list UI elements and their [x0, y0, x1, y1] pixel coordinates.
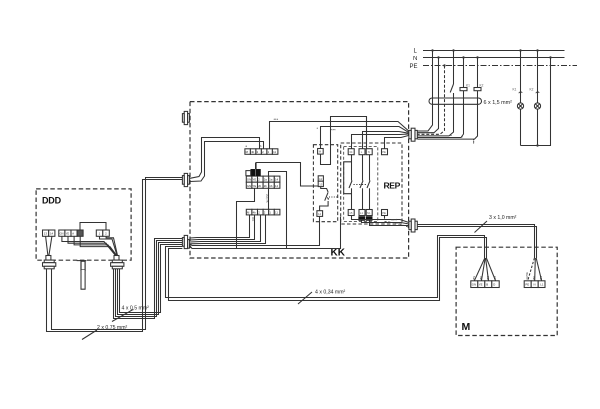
- annotation star2: [317, 126, 337, 133]
- contact N lower lead: [369, 188, 371, 209]
- coil K1 body: [460, 88, 467, 91]
- node N-K2: [476, 56, 478, 58]
- wire X2 plug to REP 34 column: [256, 163, 318, 187]
- wire PE to gland (dashed): [418, 66, 445, 135]
- connector plug outline left: [246, 171, 251, 176]
- M left terminal fan: [474, 258, 495, 281]
- wire 15 to gland2: [352, 216, 409, 223]
- DDD sensor probe tube: [81, 270, 85, 289]
- gland KK-right2: [409, 219, 417, 232]
- contact 34 blade: [349, 181, 352, 189]
- svg-text:K2: K2: [480, 84, 484, 88]
- REP terminal 15 bottom: [348, 210, 354, 216]
- DDD terminal g3: [71, 230, 77, 236]
- lamp H2 lead: [537, 51, 539, 104]
- label 6x1.5mm2: [484, 100, 513, 106]
- node N-lampreturn: [549, 56, 551, 58]
- contact linkage marks: [354, 184, 368, 186]
- REP 34 label: [349, 150, 353, 154]
- DDD terminal 13: [43, 230, 49, 236]
- sensor switch linkage dots: [329, 196, 338, 198]
- svg-text:N1: N1: [367, 211, 371, 215]
- X1 pin marks: [246, 144, 263, 148]
- wire PE pigtail to gland: [385, 135, 409, 148]
- svg-text:N: N: [413, 56, 417, 62]
- lamp H2 label: [530, 88, 534, 92]
- node L1-drop: [431, 49, 433, 51]
- svg-text:REP: REP: [384, 181, 401, 191]
- node N1-drop: [437, 56, 439, 58]
- wire X2 col2 down-left: [237, 188, 255, 248]
- svg-text:YE: YE: [253, 178, 257, 182]
- fan continuation dots: [450, 135, 474, 144]
- wire X1 terminal 5 to top run: [270, 122, 409, 149]
- coil K2 lead from N: [477, 58, 479, 88]
- svg-text:BU: BU: [532, 276, 536, 280]
- DDD mid labels: [60, 232, 75, 236]
- M right terminal fan: [528, 258, 542, 281]
- contact 34 upper lead: [351, 155, 353, 181]
- svg-text:BN: BN: [539, 276, 543, 280]
- wire gland3 stair 3: [190, 215, 261, 242]
- svg-text:2x0,75: 2x0,75: [265, 194, 269, 203]
- svg-text:4b: 4b: [251, 150, 255, 154]
- wire N1 to gland2: [370, 221, 409, 226]
- wire L to gland: [418, 51, 433, 132]
- svg-text:K2: K2: [530, 88, 534, 92]
- DDD terminal 1: [96, 230, 103, 236]
- REP N1 label: [367, 211, 371, 215]
- svg-text:YE: YE: [66, 232, 70, 236]
- cable 4x0.34 run: [166, 236, 487, 301]
- cable 2x0.75 run: [47, 178, 183, 332]
- svg-text:*: *: [317, 126, 319, 131]
- connector plug (black) on X2: [251, 169, 261, 175]
- REP module box: [341, 143, 402, 224]
- svg-text:GN: GN: [247, 184, 251, 188]
- svg-text:BN: BN: [472, 276, 476, 280]
- M left pin notes rotated: [472, 275, 497, 279]
- svg-text:2b: 2b: [264, 184, 268, 188]
- contact N blade: [367, 181, 370, 189]
- wire PE2 to gland2 dashed: [385, 222, 409, 228]
- cable 3x1.0 run: [418, 225, 537, 259]
- REP PE label: [382, 150, 386, 154]
- svg-text:6 x 1,5 mm²: 6 x 1,5 mm²: [484, 100, 513, 106]
- svg-text:D: D: [493, 283, 495, 287]
- wire 34 detour: [344, 162, 352, 194]
- terminal 13 label: [319, 182, 323, 186]
- svg-text:1a: 1a: [269, 178, 273, 182]
- svg-text:M: M: [462, 321, 471, 333]
- DDD right gland: [111, 256, 124, 269]
- node L-lamp1: [519, 49, 521, 51]
- wire gland3 stair 2: [190, 215, 255, 240]
- gland KK-left3: [182, 235, 189, 248]
- wire N to gland: [418, 58, 439, 133]
- svg-text:K1: K1: [466, 84, 470, 88]
- coil K2 body: [474, 88, 481, 91]
- DDD enclosure box: [36, 189, 131, 260]
- svg-text:YE: YE: [253, 184, 257, 188]
- label N: [413, 56, 417, 62]
- X2 terminal numbers: [247, 178, 279, 188]
- contact L lower lead: [362, 188, 364, 209]
- node lamp return: [536, 144, 538, 146]
- M right terminal labels: [525, 283, 543, 287]
- label M: [462, 321, 471, 333]
- slash 2x0.75: [82, 330, 97, 340]
- svg-text:B: B: [486, 283, 488, 287]
- gland KK-left spare: [182, 111, 189, 124]
- svg-text:14: 14: [50, 232, 54, 236]
- terminal A2 of sub-box: [318, 176, 323, 181]
- lamp H1 lead: [520, 51, 522, 104]
- lamp H1: [517, 103, 523, 109]
- shield note text: [391, 218, 397, 222]
- DDD right pair wires to gland: [100, 236, 118, 255]
- contact L upper lead: [362, 155, 364, 181]
- svg-text:GY: GY: [493, 275, 497, 279]
- svg-text:BK: BK: [486, 276, 490, 280]
- coil K1 lead to gland: [418, 91, 464, 138]
- DDD wires to left gland: [46, 236, 52, 255]
- gland KK-left2: [182, 173, 189, 186]
- cable 4x0.5 run: [114, 239, 183, 319]
- wire loop M to N over top: [321, 117, 367, 165]
- wire L1 to gland2: [362, 221, 409, 225]
- REP inner relay box: [344, 147, 378, 222]
- X3 terminal numbers: [247, 211, 278, 215]
- X1 terminal numbers: [246, 150, 277, 154]
- KK enclosure box: [190, 102, 409, 258]
- svg-text:14: 14: [318, 212, 322, 216]
- svg-text:L: L: [414, 48, 418, 54]
- M right terminals: [524, 281, 545, 288]
- terminal row X1: [245, 149, 278, 155]
- svg-text:13: 13: [44, 232, 48, 236]
- svg-text:L1: L1: [360, 211, 364, 215]
- DDD terminal g4 (dark): [77, 230, 83, 236]
- switch S1 blade: [450, 84, 453, 93]
- label DDD: [42, 196, 62, 206]
- slash 4x0.34: [298, 292, 312, 304]
- contact 34 lower lead: [351, 188, 353, 209]
- svg-text:2b: 2b: [258, 184, 262, 188]
- svg-text:4 x 0,34 mm²: 4 x 0,34 mm²: [315, 290, 346, 296]
- wire gland3 stair 1: [190, 215, 250, 238]
- DDD mid wires to right gland: [62, 236, 117, 255]
- node L-switch: [452, 49, 454, 51]
- wire switch to 14: [320, 201, 329, 211]
- svg-text:4b: 4b: [253, 211, 257, 215]
- slash 3x1.0: [475, 221, 488, 233]
- switch S1 upper lead: [453, 51, 455, 85]
- wire 14 down to gland fan: [190, 216, 320, 245]
- DDD jumper wire over: [80, 223, 106, 231]
- svg-text:PE: PE: [410, 64, 418, 70]
- lamp H1 label: [513, 88, 517, 92]
- label 4x0.34mm2: [315, 290, 346, 296]
- lamp H2 lower lead: [537, 109, 539, 145]
- label REP: [384, 181, 401, 191]
- bus N: [423, 57, 565, 59]
- svg-text:L1: L1: [540, 283, 544, 287]
- svg-text:GN: GN: [472, 283, 476, 287]
- label 2x0.75mm2: [97, 325, 128, 331]
- node N-K1: [462, 56, 464, 58]
- REP L1 label: [360, 211, 364, 215]
- lamp H2 hook: [536, 92, 540, 93]
- contact N upper lead: [369, 155, 371, 181]
- svg-text:2a: 2a: [264, 178, 268, 182]
- terminal 14 label: [318, 212, 322, 216]
- wire L pigtail to gland: [363, 132, 409, 149]
- wire gland3 stair 4: [190, 215, 266, 244]
- svg-text:1b: 1b: [269, 184, 273, 188]
- wire 34 pigtail to gland: [352, 134, 409, 149]
- wire N loop feed top: [366, 117, 368, 149]
- terminal row X3: [246, 209, 280, 215]
- svg-text:N: N: [368, 150, 370, 154]
- coil K2 lead to gland: [418, 91, 478, 139]
- svg-text:***: ***: [274, 117, 279, 122]
- wire gland2 to X1 terminal 4: [190, 142, 264, 182]
- DDD t1/t2 labels: [99, 232, 108, 236]
- terminal block X2: [246, 176, 280, 188]
- switch S1 lower lead to gland: [418, 93, 454, 136]
- M right pin notes rotated: [525, 272, 543, 280]
- DDD terminal 2: [103, 230, 110, 236]
- wire 15 column drop: [287, 217, 341, 249]
- DDD terminal g2: [65, 230, 71, 236]
- REP terminal L1 bottom: [359, 210, 365, 216]
- annotation stars: [274, 117, 279, 122]
- svg-text:a: a: [246, 145, 248, 148]
- REP output plug black: [359, 217, 373, 221]
- gland KK-right1: [409, 128, 417, 141]
- label L: [414, 48, 418, 54]
- svg-text:***: ***: [331, 128, 336, 133]
- DDD sensor probe cap: [77, 260, 87, 262]
- svg-text:PE: PE: [525, 283, 529, 287]
- rotated cable note: [265, 194, 269, 203]
- DDD terminal 14: [49, 230, 55, 236]
- svg-text:15: 15: [349, 211, 353, 215]
- svg-text:PE: PE: [382, 211, 386, 215]
- DDD sensor probe body: [81, 261, 85, 270]
- lamp H1 lower lead: [520, 109, 522, 145]
- svg-text:YE: YE: [479, 283, 483, 287]
- REP terminal N1 bottom: [366, 210, 372, 216]
- svg-text:34: 34: [349, 150, 353, 154]
- lamp return wire: [521, 58, 551, 146]
- svg-text:2 x 0,75 mm²: 2 x 0,75 mm²: [97, 325, 128, 331]
- coil K1 label: [466, 84, 470, 88]
- REP 15 label: [349, 211, 353, 215]
- label 3x1.0mm2: [489, 215, 517, 221]
- svg-text:N: N: [534, 283, 536, 287]
- svg-text:14: 14: [275, 184, 279, 188]
- lamp H2: [534, 103, 540, 109]
- DDD t13/t14 labels: [44, 232, 54, 236]
- svg-text:A2: A2: [319, 177, 323, 181]
- cable collar 6x1.5: [429, 98, 482, 104]
- REP terminal PE top: [382, 149, 388, 155]
- bus PE: [423, 65, 577, 67]
- svg-text:11: 11: [273, 150, 276, 154]
- sensor switch blade: [325, 192, 328, 200]
- terminal M of sub-box: [318, 149, 324, 155]
- M motor box: [456, 247, 557, 335]
- X3 rotated note: [251, 217, 255, 222]
- REP terminal 34 top: [348, 149, 354, 155]
- terminal A2 label: [319, 177, 323, 181]
- svg-text:11: 11: [275, 211, 278, 215]
- wire gland2 to X1 terminal 3: [190, 138, 260, 179]
- REP terminal PE bottom: [382, 210, 388, 216]
- label KK: [331, 248, 346, 259]
- label 4x0.5mm2: [122, 306, 150, 312]
- DDD terminal g1: [59, 230, 65, 236]
- sub-box sensor switch unit: [313, 145, 337, 222]
- svg-text:13: 13: [319, 182, 323, 186]
- svg-text:K1: K1: [513, 88, 517, 92]
- svg-text:GN: GN: [60, 232, 64, 236]
- svg-text:A: A: [72, 232, 74, 236]
- DDD left gland: [43, 256, 56, 269]
- REP L label: [361, 150, 363, 154]
- slash 4x0.5: [112, 310, 133, 322]
- M left terminal labels: [472, 283, 495, 287]
- svg-text:14: 14: [275, 178, 279, 182]
- svg-text:GN: GN: [247, 178, 251, 182]
- REP PE2 label: [382, 211, 386, 215]
- sensor switch arrow: [327, 197, 330, 201]
- wire 13 to switch: [321, 187, 328, 192]
- wire plug feed: [255, 163, 257, 170]
- svg-text:KK: KK: [331, 248, 346, 259]
- node PE-drop: [443, 64, 445, 66]
- svg-text:3 x 1,0 mm²: 3 x 1,0 mm²: [489, 215, 517, 221]
- label PE: [410, 64, 418, 70]
- X2-X3 link wire col5: [268, 188, 270, 209]
- svg-text:DDD: DDD: [42, 196, 62, 206]
- wire M up to run2: [321, 127, 409, 149]
- terminal 14 of sub-box: [317, 211, 323, 217]
- M left terminals: [471, 281, 499, 288]
- bus L: [423, 50, 565, 52]
- REP N label: [368, 150, 370, 154]
- svg-text:4 x 0,5 mm²: 4 x 0,5 mm²: [122, 306, 150, 312]
- coil K2 label: [480, 84, 484, 88]
- contact L blade: [360, 181, 363, 189]
- svg-text:b: b: [260, 144, 262, 148]
- lamp H1 hook: [519, 92, 523, 93]
- terminal M label: [319, 150, 322, 154]
- node L-lamp2: [536, 49, 538, 51]
- wire PE2 stub: [384, 216, 386, 219]
- svg-text:PE: PE: [382, 150, 386, 154]
- svg-text:cont: cont: [391, 218, 397, 222]
- svg-text:GNYE: GNYE: [525, 272, 529, 280]
- coil K1 lead from N: [463, 58, 465, 88]
- REP terminal L top: [359, 149, 365, 155]
- REP terminal N top: [366, 149, 372, 155]
- svg-text:BU: BU: [479, 276, 483, 280]
- terminal 13 of sub-box: [318, 181, 323, 186]
- wire A2 to left drop: [190, 172, 287, 249]
